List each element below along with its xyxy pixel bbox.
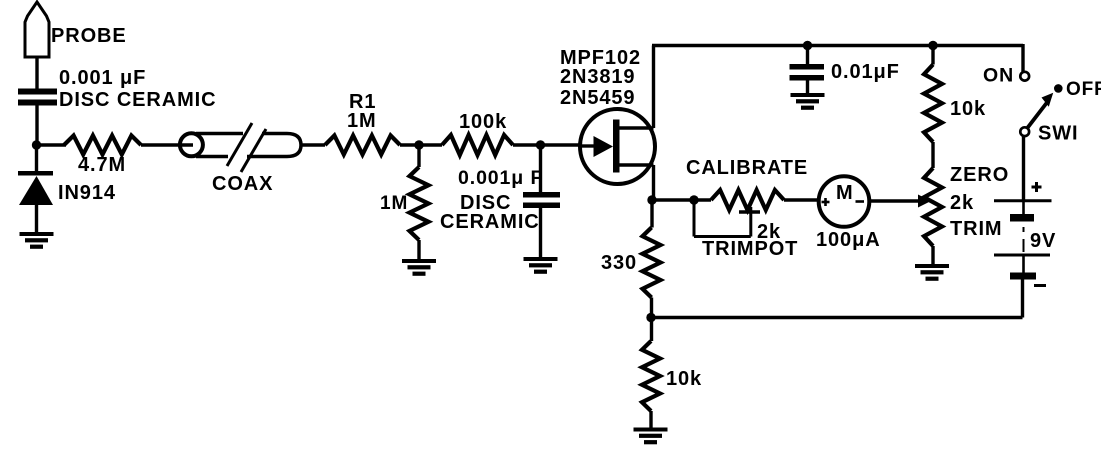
svg-text:1M: 1M xyxy=(347,110,377,132)
svg-text:100k: 100k xyxy=(459,111,507,133)
svg-text:CERAMIC: CERAMIC xyxy=(440,211,540,233)
svg-text:10k: 10k xyxy=(950,98,986,120)
svg-text:CALIBRATE: CALIBRATE xyxy=(686,157,808,179)
svg-text:2N3819: 2N3819 xyxy=(560,66,635,88)
svg-text:9V: 9V xyxy=(1030,230,1056,252)
svg-text:10k: 10k xyxy=(666,368,702,390)
svg-text:ZERO: ZERO xyxy=(950,164,1009,186)
svg-text:2k: 2k xyxy=(950,192,974,214)
svg-text:1M: 1M xyxy=(380,193,408,214)
svg-text:0.001 μF: 0.001 μF xyxy=(59,67,146,89)
svg-text:0.01μF: 0.01μF xyxy=(831,61,900,83)
svg-text:M: M xyxy=(836,182,854,204)
svg-text:2N5459: 2N5459 xyxy=(560,87,635,109)
svg-text:IN914: IN914 xyxy=(58,182,116,204)
svg-text:OFF: OFF xyxy=(1066,79,1101,100)
svg-text:PROBE: PROBE xyxy=(51,25,127,47)
svg-text:ON: ON xyxy=(983,65,1014,87)
svg-text:100μA: 100μA xyxy=(816,229,881,251)
svg-text:TRIMPOT: TRIMPOT xyxy=(702,238,798,260)
svg-text:0.001μ F: 0.001μ F xyxy=(458,167,543,189)
svg-text:DISC CERAMIC: DISC CERAMIC xyxy=(59,89,216,111)
svg-text:SWI: SWI xyxy=(1038,123,1078,145)
svg-text:330: 330 xyxy=(601,252,637,274)
svg-text:TRIM: TRIM xyxy=(950,218,1002,240)
svg-text:4.7M: 4.7M xyxy=(78,154,126,176)
svg-text:COAX: COAX xyxy=(212,173,273,195)
